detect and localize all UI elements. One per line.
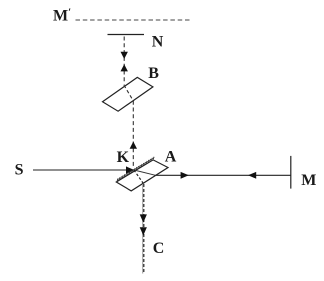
svg-text:K: K bbox=[117, 149, 130, 166]
svg-text:B: B bbox=[148, 65, 159, 82]
svg-text:A: A bbox=[165, 149, 177, 166]
svg-text:N: N bbox=[152, 34, 164, 51]
svg-text:C: C bbox=[153, 240, 165, 257]
svg-text:M: M bbox=[301, 172, 316, 189]
svg-text:S: S bbox=[15, 162, 24, 179]
